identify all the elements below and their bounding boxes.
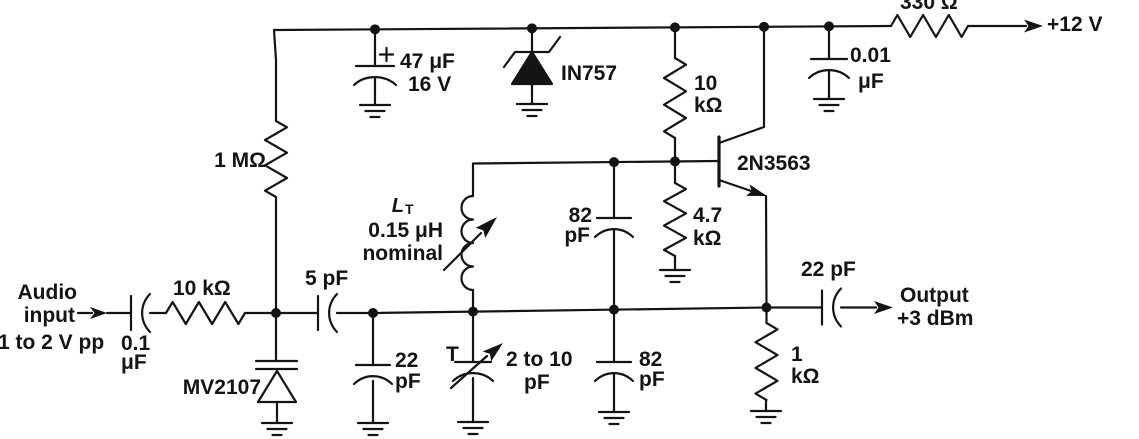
- svg-text:+12 V: +12 V: [1047, 13, 1102, 36]
- node junction base node: [670, 156, 680, 166]
- node junction emitter node: [762, 303, 772, 313]
- svg-text:1 MΩ: 1 MΩ: [214, 149, 266, 172]
- wire 82pF lower cap: [613, 310, 615, 362]
- wire bottom rail: [373, 308, 822, 314]
- node junction 47uF: [370, 24, 380, 34]
- svg-text:47 μF: 47 μF: [400, 50, 455, 73]
- wire 4.7k to ground: [674, 256, 676, 270]
- svg-text:Output: Output: [900, 284, 969, 307]
- resistor 1 kohm: [756, 323, 778, 400]
- diode D1 IN757 zener: [504, 37, 560, 67]
- ground 47uF: [360, 105, 390, 117]
- resistor 10 kohm input: [166, 302, 245, 324]
- svg-text:μF: μF: [858, 70, 884, 93]
- svg-text:μF: μF: [121, 351, 147, 374]
- svg-text:nominal: nominal: [362, 242, 443, 265]
- wire input cap to 10k: [150, 312, 166, 314]
- resistor 330 ohm: [891, 15, 968, 37]
- wire node to 5pF: [276, 312, 318, 314]
- wire 47uF top: [374, 29, 376, 66]
- capacitor 82 pF lower: [597, 361, 631, 363]
- ground 4.7k: [660, 270, 690, 282]
- svg-text:MV2107: MV2107: [183, 376, 261, 399]
- wire output arrow: [841, 306, 876, 308]
- wire 1k top: [765, 308, 767, 324]
- wire trimmer to ground: [472, 378, 474, 422]
- resistor R 1 Mohm: [265, 121, 287, 197]
- ground 22pF shunt: [358, 423, 388, 435]
- svg-text:kΩ: kΩ: [693, 227, 722, 250]
- svg-text:+3 dBm: +3 dBm: [897, 307, 973, 330]
- node junction 22pF tank: [368, 308, 378, 318]
- svg-text:5 pF: 5 pF: [305, 267, 348, 290]
- svg-text:22 pF: 22 pF: [801, 258, 856, 281]
- capacitor 5 pF: [317, 296, 319, 330]
- capacitor 47 uF 16V electrolytic: [356, 65, 394, 67]
- ground 82pF lower: [599, 412, 629, 424]
- ground trimmer: [458, 422, 488, 434]
- svg-text:kΩ: kΩ: [694, 94, 723, 117]
- svg-text:330 Ω: 330 Ω: [900, 0, 958, 14]
- wire trimmer top: [472, 312, 474, 362]
- svg-text:16 V: 16 V: [408, 73, 451, 96]
- wire varactor to ground: [276, 402, 278, 423]
- wire left branch lower: [275, 197, 277, 313]
- svg-text:L: L: [392, 195, 404, 217]
- wire 10k bottom to base node: [674, 138, 676, 161]
- capacitor 22 pF output: [821, 291, 823, 325]
- wire zener top: [531, 28, 533, 52]
- wire emitter down: [765, 196, 768, 308]
- resistor 10 kohm bias: [664, 58, 686, 138]
- capacitor 82 pF upper: [597, 217, 631, 219]
- svg-text:1: 1: [791, 343, 803, 366]
- svg-text:pF: pF: [395, 370, 421, 393]
- ground 1k: [751, 411, 781, 423]
- wire base node to 4.7k: [674, 161, 676, 183]
- svg-text:2 to 10: 2 to 10: [506, 348, 573, 371]
- wire 10k to varactor node: [245, 312, 276, 314]
- wire collector: [719, 27, 764, 143]
- inductor arrow: [444, 233, 481, 270]
- wire +12V top rail: [274, 26, 890, 30]
- wire 5pF to tank node: [337, 312, 373, 314]
- wire 0.01uF to ground: [828, 71, 830, 99]
- svg-text:4.7: 4.7: [693, 204, 722, 227]
- wire top rail right segment to +12V arrow: [968, 25, 1026, 27]
- trimmer arrow: [451, 356, 487, 388]
- svg-text:pF: pF: [564, 224, 590, 247]
- node junction inductor bottom: [468, 307, 478, 317]
- wire 10k top: [674, 27, 676, 58]
- node junction 82pF bottom: [609, 305, 619, 315]
- ground zener: [517, 104, 547, 116]
- svg-text:10 kΩ: 10 kΩ: [173, 277, 231, 300]
- wire input arrow: [78, 312, 92, 314]
- capacitor 22 pF shunt: [356, 364, 390, 366]
- svg-text:T: T: [446, 343, 459, 366]
- capacitor trimmer 2-10 pF: [455, 361, 491, 363]
- ground varactor: [262, 423, 292, 435]
- svg-text:kΩ: kΩ: [791, 365, 820, 388]
- wire 82pF top cap: [613, 162, 615, 218]
- wire 0.01uF top: [828, 26, 830, 59]
- node junction varactor node: [271, 308, 281, 318]
- capacitor 0.01 uF: [811, 58, 847, 60]
- wire 1k to ground: [765, 400, 767, 411]
- svg-text:IN757: IN757: [561, 62, 617, 85]
- wire zener to ground: [531, 84, 533, 104]
- node junction collector top: [759, 22, 769, 32]
- node junction 82pF top: [609, 157, 619, 167]
- capacitor 0.1 uF: [130, 296, 132, 330]
- resistor 4.7 kohm: [664, 183, 686, 256]
- wire inductor bottom: [472, 290, 474, 312]
- svg-text:10: 10: [694, 72, 717, 95]
- wire tank node down to 22pF: [372, 313, 374, 365]
- inductor LT 0.15uH variable: [462, 196, 474, 290]
- svg-text:pF: pF: [639, 368, 665, 391]
- wire varactor node down: [275, 313, 277, 361]
- wire 82pF mid: [613, 230, 615, 310]
- wire left branch upper: [274, 30, 276, 121]
- node junction 10k top: [670, 22, 680, 32]
- ground 0.01uF: [814, 99, 844, 111]
- svg-text:1 to 2 V pp: 1 to 2 V pp: [0, 331, 104, 354]
- wire inductor top to base: [473, 161, 718, 164]
- svg-text:pF: pF: [524, 371, 550, 394]
- svg-text:T: T: [405, 201, 414, 217]
- svg-text:0.01: 0.01: [850, 44, 891, 67]
- wire 82pF lower to ground: [613, 374, 615, 412]
- svg-text:0.15 μH: 0.15 μH: [368, 219, 443, 242]
- svg-text:input: input: [24, 304, 75, 327]
- svg-text:22: 22: [395, 349, 418, 372]
- node junction zener: [527, 23, 537, 33]
- transistor Q1 2N3563: [717, 137, 720, 186]
- diode MV2107 varactor: [256, 361, 297, 369]
- svg-text:2N3563: 2N3563: [737, 152, 811, 175]
- wire 22pF to ground: [372, 381, 374, 423]
- svg-text:Audio: Audio: [18, 281, 77, 304]
- wire 47uF to ground: [374, 78, 376, 105]
- node junction 0.01uF: [824, 21, 834, 31]
